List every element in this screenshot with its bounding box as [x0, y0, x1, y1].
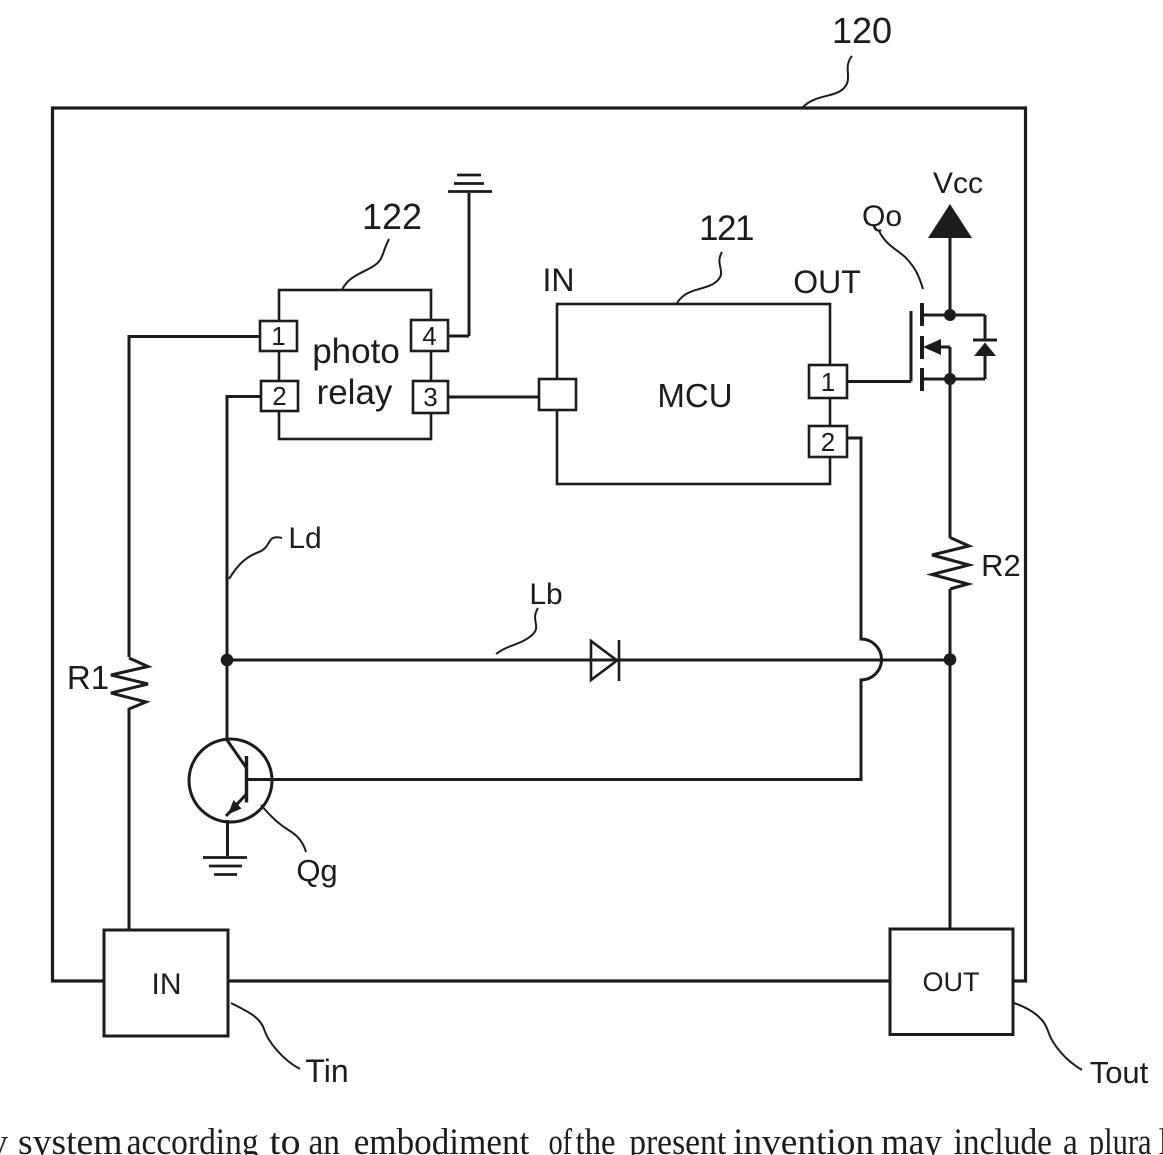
svg-text:plura: plura [1089, 1122, 1152, 1155]
ground (below Qg) [203, 858, 247, 875]
source lead [922, 378, 985, 381]
wire: junction down to OUT box [949, 660, 952, 929]
source arrow [923, 339, 941, 355]
svg-text:y: y [0, 1122, 9, 1155]
svg-text:4: 4 [422, 321, 436, 351]
wire: Vcc down to Qo drain [949, 238, 952, 315]
leader for Tout [1014, 1003, 1082, 1070]
MCU left pin [539, 379, 576, 410]
svg-text:122: 122 [362, 196, 422, 237]
svg-text:invention: invention [733, 1122, 874, 1155]
svg-text:system: system [18, 1122, 123, 1155]
MCU box 121 [557, 304, 830, 484]
diode on Lb [591, 640, 619, 681]
svg-text:Tout: Tout [1090, 1055, 1149, 1090]
MCU pin 1 [809, 365, 847, 398]
leader for Lb [496, 608, 538, 654]
svg-text:of: of [549, 1122, 573, 1155]
svg-text:relay: relay [317, 373, 393, 412]
node: junction dot left [221, 654, 234, 667]
wire: R1 to IN box [128, 708, 131, 930]
leader for Qo [879, 231, 923, 289]
wire Ld: relay pin2 left and down [227, 397, 261, 657]
transistor Qo (MOSFET) [911, 303, 997, 391]
drain lead [922, 314, 985, 317]
svg-text:l: l [1159, 1122, 1163, 1155]
terminal box OUT [890, 929, 1013, 1035]
svg-text:the: the [576, 1122, 616, 1155]
collector wire from junction [226, 660, 229, 740]
svg-text:a: a [1063, 1122, 1078, 1155]
wire: relay pin3 to MCU left pin [448, 396, 539, 399]
svg-text:embodiment: embodiment [354, 1122, 530, 1155]
svg-text:Ld: Ld [288, 522, 321, 555]
svg-text:to: to [270, 1122, 301, 1155]
relay pin 4 [411, 320, 448, 351]
wire: MCU pin2 down with hop over Lb, then left to Qg base [246, 438, 882, 780]
resistor R2 [932, 538, 969, 590]
svg-text:IN: IN [543, 262, 575, 298]
svg-text:photo: photo [312, 332, 400, 371]
wire: R2 to junction [949, 589, 952, 660]
base bar [245, 756, 248, 803]
svg-text:MCU: MCU [657, 377, 732, 414]
body diode branch [984, 315, 987, 340]
wire: relay pin1 left and down to R1 [129, 337, 260, 658]
svg-text:3: 3 [423, 382, 437, 412]
svg-text:present: present [629, 1122, 727, 1155]
terminal box IN [104, 930, 228, 1036]
relay pin 3 [413, 381, 448, 413]
svg-text:R1: R1 [67, 659, 109, 696]
svg-text:Tin: Tin [305, 1053, 348, 1089]
svg-text:Qo: Qo [862, 200, 902, 233]
relay pin 2 [261, 381, 298, 411]
MCU pin 2 [809, 426, 847, 457]
svg-text:1: 1 [271, 321, 285, 351]
leader for 120 [802, 56, 852, 108]
wire: MCU pin1 to gate [847, 380, 911, 383]
svg-text:2: 2 [821, 427, 835, 457]
svg-text:may: may [881, 1122, 942, 1155]
gate bar [910, 311, 913, 382]
channel bars [920, 303, 924, 326]
svg-text:an: an [309, 1122, 341, 1155]
node: junction dot right [944, 653, 957, 666]
wire: Qo source down to R2 [949, 379, 952, 538]
wire: top ground down to relay pin4 [448, 193, 469, 336]
svg-text:121: 121 [699, 209, 753, 248]
svg-text:Vcc: Vcc [933, 167, 983, 200]
svg-text:OUT: OUT [923, 967, 980, 997]
leader for Ld [229, 537, 282, 579]
caption text [0, 1122, 1163, 1155]
svg-text:1: 1 [821, 367, 835, 397]
leader for 121 [677, 252, 722, 303]
svg-text:OUT: OUT [793, 264, 861, 300]
outer boundary box 120 [53, 108, 1026, 981]
svg-text:Lb: Lb [529, 578, 562, 611]
svg-text:2: 2 [272, 381, 286, 411]
emitter with arrow [226, 794, 247, 816]
leader for 122 [342, 239, 389, 290]
svg-text:Qg: Qg [296, 853, 337, 888]
leader for Qg [261, 805, 306, 852]
svg-text:include: include [954, 1122, 1052, 1155]
wire Lb horizontal [227, 659, 950, 662]
svg-text:according: according [127, 1122, 259, 1155]
ground (top, inverted) [448, 175, 492, 192]
svg-text:120: 120 [832, 10, 892, 51]
photo relay box 122 [279, 290, 431, 439]
transistor Qg (BJT) [189, 660, 272, 856]
relay pin 1 [260, 321, 297, 351]
leader for Tin [231, 1003, 300, 1069]
svg-text:IN: IN [152, 968, 182, 1001]
resistor R1 [111, 658, 148, 709]
svg-text:R2: R2 [981, 548, 1021, 583]
